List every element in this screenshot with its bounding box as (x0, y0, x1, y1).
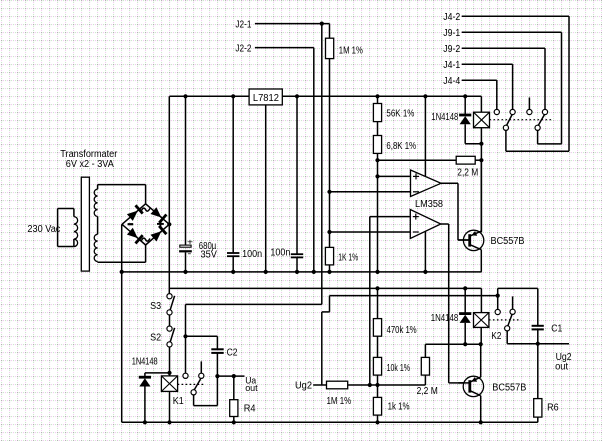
svg-text:2,2 M: 2,2 M (457, 167, 478, 178)
svg-text:J9-1: J9-1 (443, 28, 460, 39)
svg-text:C2: C2 (227, 347, 238, 358)
svg-text:R6: R6 (547, 402, 559, 413)
svg-text:LM358: LM358 (415, 199, 443, 210)
svg-text:1N4148: 1N4148 (431, 313, 459, 324)
svg-text:1k 1%: 1k 1% (388, 402, 410, 413)
svg-text:S2: S2 (150, 333, 161, 344)
svg-text:J4-4: J4-4 (443, 76, 460, 87)
svg-text:100n: 100n (270, 248, 290, 259)
svg-text:C1: C1 (551, 323, 562, 334)
svg-text:35V: 35V (201, 250, 218, 261)
svg-text:J9-2: J9-2 (443, 44, 460, 55)
svg-text:S3: S3 (150, 301, 161, 312)
svg-text:BC557B: BC557B (492, 383, 526, 394)
svg-text:1K 1%: 1K 1% (338, 252, 358, 263)
svg-text:J2-1: J2-1 (235, 19, 251, 30)
svg-text:J4-2: J4-2 (443, 12, 460, 23)
svg-text:100n: 100n (242, 249, 262, 260)
svg-text:+: + (187, 237, 193, 246)
svg-text:6V x2 - 3VA: 6V x2 - 3VA (66, 159, 114, 170)
svg-text:K1: K1 (173, 396, 184, 407)
svg-text:J4-1: J4-1 (443, 60, 460, 71)
svg-text:K2: K2 (491, 331, 501, 342)
svg-text:1M 1%: 1M 1% (327, 396, 352, 407)
svg-text:1M 1%: 1M 1% (339, 45, 363, 56)
svg-text:6,8K 1%: 6,8K 1% (386, 141, 416, 152)
svg-text:BC557B: BC557B (491, 236, 525, 247)
svg-text:J2-2: J2-2 (235, 43, 251, 54)
svg-text:out: out (245, 383, 258, 393)
svg-text:230 Vac: 230 Vac (27, 224, 60, 235)
svg-text:L7812: L7812 (253, 93, 279, 104)
svg-text:-: - (187, 249, 191, 259)
svg-text:1N4148: 1N4148 (431, 112, 458, 123)
svg-text:470k 1%: 470k 1% (387, 325, 417, 336)
svg-text:Ug2: Ug2 (295, 381, 312, 392)
svg-text:10k 1%: 10k 1% (387, 363, 410, 374)
svg-text:56K 1%: 56K 1% (386, 109, 414, 120)
svg-text:out: out (555, 361, 568, 372)
svg-text:1N4148: 1N4148 (132, 356, 158, 367)
svg-text:R4: R4 (244, 403, 256, 414)
svg-text:2,2 M: 2,2 M (417, 386, 438, 397)
